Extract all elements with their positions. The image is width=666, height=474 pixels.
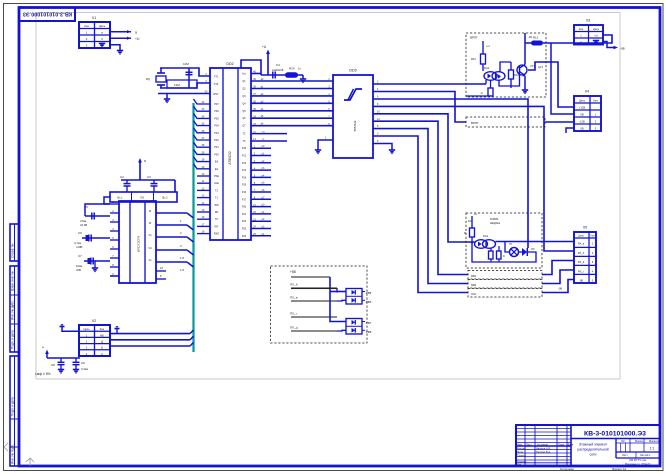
svg-text:Кон: Кон	[579, 27, 584, 31]
svg-text:X4: X4	[585, 90, 589, 94]
svg-text:R14: R14	[289, 67, 295, 71]
svg-text:R13: R13	[533, 36, 539, 40]
svg-text:№ докум.: № докум.	[537, 444, 549, 447]
wire opto top to R12	[500, 62, 511, 72]
svg-text:P14: P14	[242, 176, 247, 179]
svg-text:а: а	[144, 159, 146, 163]
svg-text:а: а	[135, 31, 137, 35]
svg-text:0В: 0В	[580, 127, 583, 131]
left margin column boxes	[10, 224, 19, 466]
svg-text:3,3мк: 3,3мк	[81, 367, 89, 371]
svg-text:ALE: ALE	[214, 182, 219, 185]
buffer DD3 body	[333, 69, 373, 159]
svg-text:Vd: Vd	[148, 246, 152, 250]
wire DD1 header link	[104, 197, 110, 204]
svg-text:С8: С8	[51, 363, 55, 367]
dashed row PV1	[468, 271, 542, 280]
svg-text:-0В: -0В	[579, 279, 583, 283]
capacitor C9	[73, 358, 89, 373]
svg-text:RX_б: RX_б	[578, 251, 585, 255]
MCU DD2 body	[210, 62, 251, 240]
svg-text:ПХ_г: ПХ_г	[290, 312, 297, 316]
svg-text:ФВ1: ФВ1	[471, 274, 477, 278]
wire +5V node right	[261, 74, 303, 76]
wire DD3 p4 to table X5 row2	[373, 103, 574, 251]
dashed row PV2	[468, 280, 542, 289]
+5V label bottom box	[290, 270, 296, 274]
svg-text:РВ7: РВ7	[366, 321, 372, 325]
svg-text:АТ89С52: АТ89С52	[228, 151, 232, 164]
ground at RST node	[164, 94, 170, 103]
opto pair 1 wiring	[330, 288, 346, 301]
document designation box (rotated)	[19, 8, 75, 22]
wire +5V node (black)	[291, 277, 330, 292]
DD1 right pins to bus	[148, 209, 193, 267]
svg-text:Б: Б	[101, 346, 103, 350]
relay unit 1 dashed box	[466, 33, 546, 97]
svg-text:P21: P21	[242, 213, 247, 216]
svg-text:Кон: Кон	[84, 24, 89, 28]
optocoupler DA1	[484, 66, 505, 80]
wire X2 row1 left ground	[60, 325, 80, 331]
svg-text:+5В: +5В	[290, 270, 296, 274]
note text	[35, 372, 51, 376]
opto pair 1 diodes	[352, 290, 356, 303]
svg-text:P16: P16	[242, 191, 247, 194]
svg-text:DA1: DA1	[484, 66, 490, 70]
MCU left lower stub pins	[197, 173, 219, 236]
svg-text:С4: С4	[276, 63, 280, 67]
svg-text:+U: +U	[135, 37, 140, 41]
svg-text:распределительной: распределительной	[577, 448, 608, 452]
svg-text:Кон: Кон	[100, 327, 105, 331]
svg-text:RD: RD	[215, 211, 219, 214]
svg-text:P22: P22	[242, 220, 247, 223]
svg-text:M: M	[149, 209, 151, 213]
bottom dashed interface box	[271, 266, 368, 343]
svg-text:Цепь: Цепь	[579, 99, 586, 103]
wire PX_b (black)	[290, 283, 337, 289]
svg-text:x10В: x10В	[76, 245, 83, 249]
wire X1 pin1 out	[110, 30, 137, 34]
+U label unit1	[483, 41, 490, 48]
svg-text:Вх.2: Вх.2	[163, 197, 169, 200]
svg-text:КР1171СП4: КР1171СП4	[137, 236, 141, 253]
svg-text:С3: С3	[147, 175, 151, 179]
svg-text:P04: P04	[214, 125, 219, 128]
svg-text:X3: X3	[586, 19, 590, 23]
svg-text:R: R	[503, 255, 505, 258]
wire unit2 output to X5 row1	[496, 241, 575, 243]
svg-text:P05: P05	[214, 117, 219, 120]
svg-text:X5: X5	[583, 226, 587, 230]
svg-text:Цепь: Цепь	[593, 27, 600, 31]
svg-text:Кон: Кон	[590, 235, 595, 238]
X3 ground in cell	[593, 40, 599, 44]
wire DD3 p3 into unit2	[373, 96, 528, 249]
wire branch to X4 row2	[551, 43, 574, 114]
svg-text:-0В: -0В	[558, 287, 562, 291]
svg-text:DD2: DD2	[226, 62, 233, 66]
svg-text:ПХ_в: ПХ_в	[290, 296, 298, 300]
svg-text:P06: P06	[214, 110, 219, 113]
wire R13 to X3 row2	[543, 35, 612, 43]
DD1 lower right stubs	[156, 266, 166, 279]
svg-text:МК: МК	[100, 333, 104, 337]
wire VRPG to X4 row3	[545, 121, 574, 123]
capacitor C3 on DD1 header	[147, 175, 158, 192]
ground after R14	[300, 75, 306, 82]
svg-text:Лист: Лист	[526, 443, 532, 447]
svg-text:XT2: XT2	[214, 83, 219, 86]
svg-text:ФС: ФС	[468, 220, 472, 223]
wire cap rail	[47, 357, 80, 359]
VRPG relay dashed label	[466, 117, 545, 127]
svg-text:1.8: 1.8	[180, 268, 184, 272]
wire X2 row4 to bus	[110, 342, 194, 346]
svg-text:P07: P07	[214, 103, 219, 106]
svg-text:P23: P23	[242, 228, 247, 231]
canvas gray guide lines	[36, 13, 620, 380]
wire X4 row4 stub	[566, 128, 574, 133]
MCU mid stub wires	[251, 131, 287, 141]
R21 resistor	[464, 226, 475, 244]
svg-text:Lмф ± 5%: Lмф ± 5%	[35, 372, 51, 376]
svg-text:А: А	[101, 352, 103, 356]
svg-text:ЛУН: ЛУН	[471, 292, 476, 296]
lamp indicator	[509, 243, 519, 257]
svg-text:ВРПГ: ВРПГ	[471, 121, 479, 125]
wire MCU Vcc pin40	[251, 73, 261, 75]
DD3 right lower pin to ground	[373, 140, 395, 153]
svg-text:+U: +U	[262, 45, 267, 49]
svg-text:Цепь: Цепь	[83, 327, 90, 331]
svg-text:DD3: DD3	[349, 69, 356, 73]
svg-text:INT: INT	[214, 225, 219, 228]
svg-text:Листов 1: Листов 1	[640, 453, 651, 457]
IC DD1 body	[119, 201, 156, 283]
wire opto out to VT1 base	[499, 74, 520, 87]
svg-text:PSE: PSE	[214, 175, 219, 178]
capacitor C7 electrolytic	[76, 254, 110, 272]
svg-text:XT1: XT1	[214, 76, 219, 79]
resistor R13	[531, 36, 543, 46]
svg-text:РВ6: РВ6	[366, 300, 372, 304]
svg-text:RXD: RXD	[214, 233, 219, 236]
wire bundle MCU to DD3	[251, 78, 333, 126]
svg-text:RX_а: RX_а	[578, 242, 585, 246]
svg-text:Подп. и дата: Подп. и дата	[11, 397, 15, 416]
X1 ground symbol in cell	[99, 43, 105, 47]
svg-text:+U: +U	[594, 34, 598, 38]
svg-text:Взам. инв. №: Взам. инв. №	[11, 271, 15, 291]
svg-text:Изм.: Изм.	[517, 443, 523, 447]
svg-text:Лит.: Лит.	[621, 439, 626, 443]
optocoupler DA2	[475, 234, 496, 248]
svg-text:ZQ: ZQ	[146, 77, 151, 81]
svg-text:P12: P12	[242, 162, 247, 165]
wire VT1 emitter ground	[522, 76, 528, 93]
wire XTAL top	[160, 68, 210, 76]
wire DD3 p6 to dashed row1	[373, 118, 468, 275]
svg-text:R11: R11	[471, 57, 476, 61]
svg-text:RX_г: RX_г	[578, 269, 584, 273]
R11 resistor	[471, 45, 486, 71]
svg-text:С9: С9	[81, 361, 85, 365]
svg-text:P17: P17	[242, 198, 247, 201]
svg-text:-U: -U	[480, 91, 483, 95]
svg-text:EA: EA	[215, 161, 219, 164]
svg-text:P02: P02	[214, 139, 219, 142]
wire DD3 p2 to VRPG label	[373, 88, 466, 122]
LED cathode resistor	[466, 80, 493, 96]
X2 ground tick	[115, 327, 120, 334]
svg-text:С6: С6	[78, 231, 82, 235]
svg-text:P20: P20	[242, 206, 247, 209]
+U arrow above DD1	[138, 158, 146, 180]
wire row1 to X5 row3	[542, 261, 574, 275]
svg-text:РВ8: РВ8	[366, 330, 372, 334]
svg-text:0В: 0В	[580, 113, 583, 117]
svg-text:R: R	[464, 231, 466, 235]
svg-text:Цепь: Цепь	[578, 235, 584, 238]
svg-text:С2: С2	[120, 175, 124, 179]
wire DD3 p7 to dashed row2	[373, 125, 468, 283]
svg-text:RST: RST	[214, 93, 219, 96]
bus (teal)	[192, 103, 194, 352]
MCU left pins from bus	[194, 99, 220, 171]
unit2 internal wires	[472, 241, 536, 262]
svg-text:X1: X1	[92, 16, 96, 20]
crystal ZQ1	[146, 68, 166, 88]
svg-text:Лист: Лист	[622, 453, 628, 457]
wire row3 to X5 row5	[542, 280, 574, 293]
wire input to DA1 LED	[466, 80, 486, 84]
svg-text:Цепь: Цепь	[99, 24, 106, 28]
ground C7	[92, 261, 98, 271]
svg-text:Вх.1: Вх.1	[118, 197, 124, 200]
relay unit 2 dashed box	[466, 213, 542, 268]
wire X3 row3 to -0V	[603, 42, 625, 51]
svg-text:ФВ2: ФВ2	[471, 283, 477, 287]
svg-text:10М: 10М	[183, 62, 189, 66]
wire DD3 p1 to opto box	[373, 81, 466, 85]
svg-text:Масса: Масса	[635, 439, 643, 443]
unit2 resistors pair	[489, 246, 506, 262]
svg-text:EA: EA	[215, 168, 219, 171]
capacitor C1 across	[183, 62, 193, 88]
svg-text:GN: GN	[140, 197, 144, 200]
svg-text:P13: P13	[242, 169, 247, 172]
svg-text:Д: Д	[101, 340, 103, 344]
svg-text:Петров В.А.: Петров В.А.	[536, 450, 551, 454]
resistor R12	[509, 62, 520, 88]
svg-text:Справ. №: Справ. №	[11, 243, 15, 258]
svg-text:P11: P11	[242, 155, 247, 158]
svg-text:+12В: +12В	[579, 106, 585, 110]
capacitor C8	[51, 358, 65, 373]
svg-text:Утв.: Утв.	[517, 463, 522, 467]
svg-text:Кон: Кон	[593, 99, 598, 103]
svg-text:P03: P03	[214, 132, 219, 135]
dashed row PV3	[468, 289, 542, 298]
capacitor C5 electrolytic	[80, 205, 110, 227]
svg-text:КВ-3-010101000.Э3: КВ-3-010101000.Э3	[584, 430, 646, 437]
capacitor C4	[272, 63, 284, 79]
svg-text:ВРПГ: ВРПГ	[470, 36, 478, 40]
svg-text:ГЛ: ГЛ	[509, 243, 512, 246]
DD1 right pin labels	[180, 219, 184, 272]
diode VD	[522, 248, 535, 256]
svg-text:Т.контр.: Т.контр.	[517, 453, 527, 457]
wire PX_g (black)	[290, 312, 337, 323]
svg-text:Подп. и дата: Подп. и дата	[11, 330, 15, 349]
svg-text:Инв. № дубл.: Инв. № дубл.	[11, 300, 15, 320]
opto pair 1 body	[346, 289, 362, 305]
svg-text:-: -	[595, 107, 596, 110]
svg-text:Подп.: Подп.	[558, 443, 565, 447]
svg-text:КВ-3-010101000.Э3: КВ-3-010101000.Э3	[23, 10, 72, 16]
svg-text:С7: С7	[78, 254, 82, 258]
svg-text:+U: +U	[486, 44, 490, 48]
wire X1 pin3 to ground	[110, 45, 123, 54]
wire VT1 collector up	[525, 33, 532, 65]
svg-text:555ЛН2: 555ЛН2	[353, 120, 357, 131]
wire MCU top loop	[241, 60, 261, 75]
svg-text:Иванов А.В.: Иванов А.В.	[536, 446, 551, 450]
opto pair 1 labels	[362, 291, 372, 304]
svg-text:12М: 12М	[174, 83, 180, 87]
svg-text:x6,3В: x6,3В	[80, 223, 87, 227]
svg-text:RX_в: RX_в	[578, 260, 585, 264]
DD3 left pin numbers	[328, 78, 330, 126]
svg-text:1.8: 1.8	[180, 256, 184, 260]
svg-text:1:1: 1:1	[650, 447, 655, 451]
MCU right pin labels	[242, 71, 257, 238]
capacitor C6 electrolytic	[74, 231, 110, 249]
svg-text:P15: P15	[242, 184, 247, 187]
connector X2 table	[79, 319, 110, 356]
connector X4 table	[574, 90, 601, 132]
wire XTAL bottom	[160, 83, 210, 88]
svg-text:TX: TX	[242, 140, 245, 143]
svg-text:ПХ_б: ПХ_б	[290, 283, 298, 287]
svg-text:+U: +U	[474, 213, 477, 216]
svg-text:ПХ_д: ПХ_д	[290, 326, 298, 330]
unit2 +U wire	[468, 213, 477, 226]
opto pair 2 wiring	[330, 292, 346, 332]
DD1 header cells	[110, 192, 177, 202]
svg-text:P01: P01	[214, 146, 219, 149]
svg-text:x6В: x6В	[76, 268, 81, 272]
MCU lower right stub pins	[251, 145, 271, 236]
title block (GOST stamp)	[516, 425, 661, 471]
wire DD3 p5 to opto box 2	[373, 110, 466, 242]
power rail above DD1 header	[121, 180, 175, 192]
connector X1 table	[79, 16, 110, 48]
svg-text:P00: P00	[214, 153, 219, 156]
svg-text:сети: сети	[590, 453, 597, 457]
opto pair 2 labels	[362, 321, 372, 334]
svg-text:ЦУ1: ЦУ1	[538, 65, 544, 69]
svg-text:-1В: -1В	[528, 36, 532, 39]
svg-text:-12В: -12В	[579, 120, 585, 124]
connector X3 table	[574, 19, 603, 45]
svg-text:WR: WR	[214, 204, 218, 207]
wire PX_v (black)	[290, 296, 337, 302]
transistor VT1	[517, 64, 536, 77]
svg-text:-0В: -0В	[620, 47, 625, 51]
wire RST	[158, 93, 210, 95]
svg-text:Разраб.: Разраб.	[517, 446, 527, 450]
DD1 left pin stubs	[110, 200, 119, 276]
svg-text:DA2: DA2	[483, 234, 489, 238]
fold mark gray	[4, 443, 34, 466]
svg-text:1мкФx16В: 1мкФx16В	[272, 69, 284, 72]
wire X1 pin2 out	[110, 37, 140, 41]
-U arrow bottom left	[42, 345, 49, 358]
wire unit1 out mid	[528, 62, 574, 107]
component box 12M	[167, 80, 197, 88]
wire C5 node up	[85, 204, 110, 216]
resistor R14	[285, 67, 301, 78]
svg-text:Копировал: Копировал	[560, 467, 574, 471]
svg-text:Инв. № подл.: Инв. № подл.	[11, 444, 15, 464]
svg-text:X2: X2	[92, 319, 96, 323]
svg-text:Баумана гр. ИУ4-61: Баумана гр. ИУ4-61	[625, 462, 651, 466]
+5V arrow	[262, 45, 270, 75]
capacitor C2 on DD1 header	[120, 175, 131, 192]
svg-text:P24: P24	[242, 235, 247, 238]
wire row2 to X5 row4	[542, 270, 574, 284]
opto pair 2 body	[346, 319, 362, 335]
wire DD1 pin7	[110, 275, 119, 277]
svg-text:Дата: Дата	[568, 443, 574, 447]
wire X2 row2 to bus	[110, 330, 194, 334]
wire PX_d (black)	[290, 326, 337, 332]
svg-text:Масштаб: Масштаб	[649, 439, 661, 443]
wire unit2 input	[466, 241, 475, 243]
wire DD3 p8 to dashed row3	[373, 133, 468, 293]
connector X5 table	[574, 226, 596, 284]
svg-text:VD: VD	[531, 248, 535, 251]
DD3 left lower pin to ground	[315, 137, 333, 154]
svg-text:НЕД№1: НЕД№1	[490, 221, 501, 225]
DD3 hysteresis symbol	[344, 89, 362, 100]
MCU xtal pin labels	[205, 73, 219, 96]
svg-text:P10: P10	[242, 147, 247, 150]
svg-text:Формат А1: Формат А1	[612, 467, 627, 471]
wire X2 row3 to bus	[110, 336, 194, 340]
opto pair 2 diodes	[352, 320, 356, 333]
svg-text:Этажный элемент: Этажный элемент	[579, 443, 608, 447]
svg-text:б: б	[101, 37, 103, 41]
svg-text:Пров.: Пров.	[517, 450, 524, 454]
svg-text:РВ5: РВ5	[366, 291, 372, 295]
